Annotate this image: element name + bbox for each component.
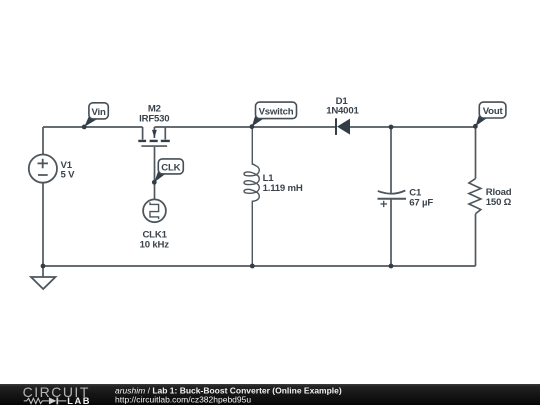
svg-text:Vout: Vout — [483, 106, 504, 117]
wire ground stub — [42, 266, 44, 277]
wire bottom rail — [43, 265, 476, 267]
svg-text:1N4001: 1N4001 — [326, 106, 359, 117]
wire top-right — [154, 126, 335, 128]
node CLK dot — [152, 180, 157, 185]
node CLK label — [154, 159, 183, 182]
svg-text:LAB: LAB — [67, 396, 91, 405]
wire left vertical upper — [42, 127, 44, 155]
wire top-right2 — [350, 126, 476, 128]
footer bar — [0, 384, 540, 405]
wire top-left — [43, 126, 143, 128]
node Vout dot — [473, 124, 478, 129]
logo resistor zigzag — [24, 398, 49, 403]
svg-text:67 µF: 67 µF — [409, 198, 433, 209]
node Vin label — [84, 103, 108, 127]
transistor M2 (NMOS IRF530) — [138, 103, 170, 146]
wire C1 top — [390, 127, 392, 194]
node Vswitch dot — [250, 124, 255, 129]
logo diode — [49, 397, 56, 404]
svg-text:Vin: Vin — [92, 107, 106, 118]
node Vout label — [475, 102, 506, 126]
junction C1 bottom — [389, 264, 394, 269]
capacitor C1 — [378, 188, 434, 209]
clock source CLK1 — [140, 199, 170, 250]
junction L1 bottom — [250, 264, 255, 269]
junction ground — [41, 264, 46, 269]
wire left vertical lower — [42, 183, 44, 266]
wire right vertical lower — [475, 214, 477, 266]
node C1 top junction — [389, 125, 394, 130]
diode D1 1N4001 — [326, 96, 359, 135]
svg-text:http://circuitlab.com/cz382hpe: http://circuitlab.com/cz382hpebd95u — [115, 394, 251, 404]
node Vswitch label — [252, 102, 297, 126]
svg-text:IRF530: IRF530 — [139, 113, 169, 124]
svg-text:150 Ω: 150 Ω — [486, 197, 512, 208]
svg-text:5 V: 5 V — [61, 170, 76, 181]
wire gate to CLK1 — [154, 147, 156, 200]
ground — [31, 277, 55, 289]
voltage source V1 — [29, 155, 75, 183]
wire right vertical upper — [475, 127, 477, 179]
svg-text:1.119 mH: 1.119 mH — [263, 183, 303, 194]
svg-text:Vswitch: Vswitch — [259, 106, 294, 117]
svg-text:10 kHz: 10 kHz — [140, 239, 170, 250]
wire C1 bottom — [390, 199, 392, 266]
inductor L1 — [244, 127, 303, 266]
svg-text:CLK: CLK — [161, 162, 180, 173]
resistor Rload — [469, 179, 512, 214]
node Vin dot — [82, 125, 87, 130]
